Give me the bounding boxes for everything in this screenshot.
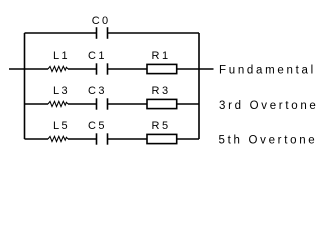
inductor L3 <box>48 101 68 106</box>
wire top branch right of C0 <box>108 32 200 34</box>
wire left rail <box>24 33 26 139</box>
svg-text:Fundamental: Fundamental <box>219 64 316 76</box>
wire top branch left of C0 <box>25 32 97 34</box>
wire left external lead <box>9 68 48 70</box>
capacitor C3 <box>97 98 108 109</box>
resistor R1 <box>147 64 177 73</box>
svg-text:L5: L5 <box>53 120 70 132</box>
resistor R5 <box>147 134 177 143</box>
svg-text:5th Overtone: 5th Overtone <box>219 134 318 146</box>
wire row2 R3 to right rail <box>177 103 199 105</box>
wire row1 C1 to R1 <box>108 68 148 70</box>
svg-text:C5: C5 <box>88 120 107 132</box>
wire row3 C5 to R5 <box>108 138 148 140</box>
wire row2 C3 to R3 <box>108 103 148 105</box>
inductor L5 <box>48 136 68 141</box>
wire row1 L1 to C1 <box>68 68 97 70</box>
svg-text:C0: C0 <box>92 15 111 27</box>
wire row2 L3 to C3 <box>68 103 97 105</box>
svg-text:3rd Overtone: 3rd Overtone <box>219 100 319 112</box>
capacitor C5 <box>97 133 108 144</box>
svg-text:R3: R3 <box>152 85 171 97</box>
svg-text:L3: L3 <box>53 85 70 97</box>
svg-text:L1: L1 <box>53 50 70 62</box>
wire row3 rail to L5 <box>25 138 49 140</box>
inductor L1 <box>48 66 68 71</box>
capacitor C0 <box>97 27 108 39</box>
wire row3 L5 to C5 <box>68 138 97 140</box>
svg-text:C1: C1 <box>88 50 107 62</box>
svg-text:R5: R5 <box>152 120 171 132</box>
wire row2 rail to L3 <box>25 103 49 105</box>
svg-text:R1: R1 <box>152 50 171 62</box>
resistor R3 <box>147 99 177 108</box>
capacitor C1 <box>97 63 108 74</box>
wire row3 R5 to right rail <box>177 138 199 140</box>
wire right rail <box>198 33 200 139</box>
wire row1 R1 to right stub <box>177 68 214 70</box>
svg-text:C3: C3 <box>88 85 107 97</box>
